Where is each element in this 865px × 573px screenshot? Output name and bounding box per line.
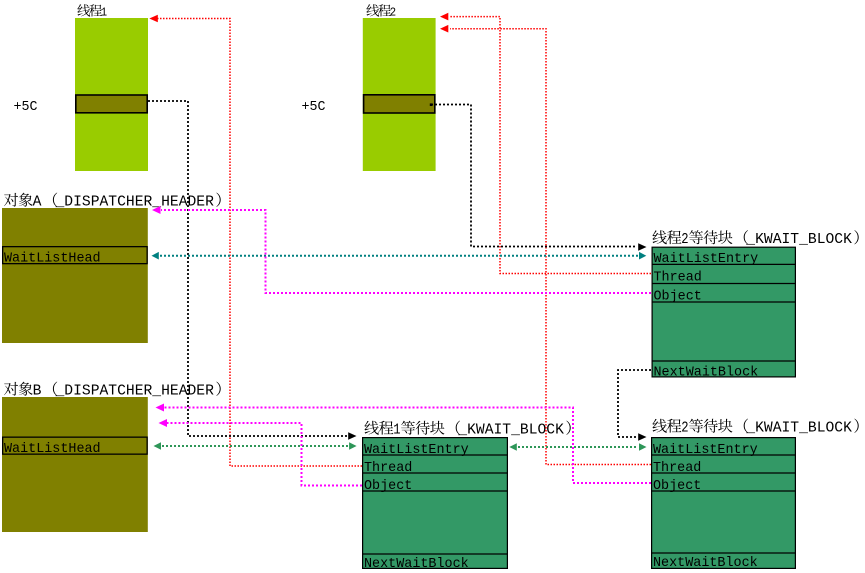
svg-text:_KWAIT_BLOCK: _KWAIT_BLOCK bbox=[745, 421, 852, 437]
svg-text:WaitListEntry: WaitListEntry bbox=[654, 251, 759, 267]
wait block table T2B: thread2/objectB (_KWAIT_BLOCK): WaitListEntry, Thread, Object, NextWaitBlock bbox=[651, 438, 796, 571]
svg-text:+5C: +5C bbox=[302, 99, 326, 115]
svg-text:WaitListHead: WaitListHead bbox=[4, 441, 101, 457]
object A box (_DISPATCHER_HEADER) bbox=[2, 208, 148, 343]
label 对象B (_DISPATCHER_HEADER) bbox=[4, 382, 221, 400]
thread 2 box (线程2) bbox=[363, 18, 436, 171]
label 线程2 bbox=[366, 4, 396, 19]
label 线程1等待块 (_KWAIT_BLOCK) bottom-middle bbox=[364, 421, 570, 439]
label 线程2等待块 (_KWAIT_BLOCK) top-right bbox=[652, 230, 858, 248]
node: link dot inside thread2 band bbox=[430, 103, 433, 106]
svg-text:_KWAIT_BLOCK: _KWAIT_BLOCK bbox=[457, 423, 564, 439]
svg-text:Thread: Thread bbox=[364, 460, 412, 476]
label 线程2等待块 (_KWAIT_BLOCK) bottom-right bbox=[652, 419, 858, 437]
svg-text:NextWaitBlock: NextWaitBlock bbox=[653, 555, 758, 571]
label +5C (thread 2) bbox=[302, 99, 326, 115]
label +5C (thread 1) bbox=[14, 99, 38, 115]
thread 1 box (线程1) bbox=[75, 18, 148, 171]
wire magenta: T2B Object field -> object B (dotted) bbox=[156, 404, 652, 484]
thread 1 wait-block band (+5C) bbox=[76, 95, 147, 113]
wire black: T2A NextWaitBlock -> T2B wait block (dotted) bbox=[618, 370, 651, 441]
svg-text:WaitListEntry: WaitListEntry bbox=[364, 442, 469, 458]
object B WaitListHead field bbox=[3, 437, 148, 454]
svg-text:+5C: +5C bbox=[14, 99, 38, 115]
wire magenta: T1B Object field -> object B (dotted) bbox=[159, 419, 363, 486]
wire red: T1B Thread field -> thread 1 (dotted) bbox=[149, 15, 362, 466]
svg-text:Object: Object bbox=[653, 478, 701, 494]
svg-text:1: 1 bbox=[393, 423, 400, 439]
svg-text:2: 2 bbox=[681, 421, 688, 437]
wire red: T2B Thread field -> thread 2 (dotted) bbox=[440, 25, 651, 465]
object A WaitListHead field bbox=[3, 247, 148, 264]
object B box (_DISPATCHER_HEADER) bbox=[2, 397, 148, 532]
wire green: T1B WaitListEntry <-> T2B WaitListEntry (double arrow dotted) bbox=[509, 443, 646, 451]
svg-text:WaitListEntry: WaitListEntry bbox=[653, 442, 758, 458]
svg-text:Object: Object bbox=[364, 478, 412, 494]
wire red: T2A Thread field -> thread 2 (dotted) bbox=[440, 13, 651, 274]
svg-text:Thread: Thread bbox=[654, 270, 702, 286]
wire green: object B WaitListHead <-> T1B WaitListEntry (double arrow dotted) bbox=[154, 442, 357, 450]
svg-text:2: 2 bbox=[390, 6, 397, 20]
wire magenta: T2A Object field -> object A (dotted) bbox=[152, 206, 651, 293]
label 对象A (_DISPATCHER_HEADER) bbox=[4, 193, 221, 211]
wire teal: object A WaitListHead <-> T2A WaitListEntry (double arrow dotted) bbox=[152, 252, 647, 260]
wire black: thread2 +5C band -> T2A wait block (dotted) bbox=[431, 105, 647, 251]
wait block table T1B: thread1/objectB (_KWAIT_BLOCK): WaitListEntry, Thread, Object, NextWaitBlock bbox=[362, 438, 508, 572]
label 线程1 bbox=[77, 4, 107, 19]
svg-text:1: 1 bbox=[101, 6, 108, 20]
wait block table T2A: thread2/objectA (_KWAIT_BLOCK): WaitListEntry, Thread, Object, NextWaitBlock bbox=[652, 247, 797, 380]
svg-text:2: 2 bbox=[681, 232, 688, 248]
svg-text:Object: Object bbox=[654, 289, 702, 305]
svg-text:NextWaitBlock: NextWaitBlock bbox=[364, 556, 469, 572]
svg-text:WaitListHead: WaitListHead bbox=[4, 251, 101, 267]
wire black: thread1 +5C band -> T1B wait block (dotted) bbox=[148, 101, 357, 440]
svg-text:NextWaitBlock: NextWaitBlock bbox=[654, 365, 759, 381]
svg-text:Thread: Thread bbox=[653, 460, 701, 476]
svg-text:_KWAIT_BLOCK: _KWAIT_BLOCK bbox=[745, 232, 852, 248]
thread 2 wait-block band (+5C) bbox=[364, 95, 435, 113]
